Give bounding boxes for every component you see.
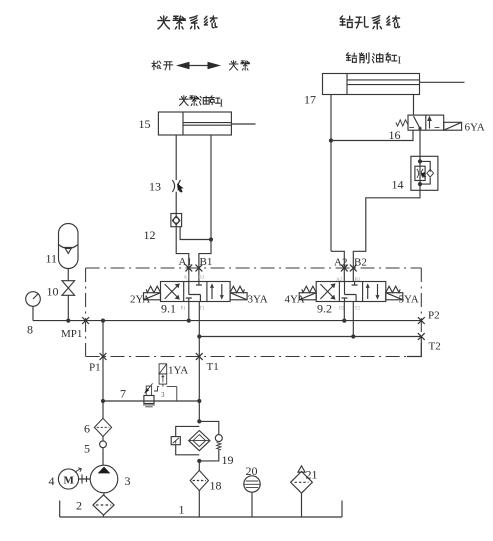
label: clamping cylinder I <box>179 96 220 106</box>
valve 9.1 port labels (small) <box>181 276 206 312</box>
svg-text:15: 15 <box>139 117 151 131</box>
svg-text:18: 18 <box>210 479 222 493</box>
wire: check 12 down, jog right to A1 <box>176 227 189 282</box>
svg-text:B2: B2 <box>355 278 361 283</box>
suction filter 2 <box>93 495 114 515</box>
svg-text:3YA: 3YA <box>248 294 268 306</box>
one-way flow control valve 14 <box>411 156 438 190</box>
electromagnetic relief valve 7 <box>143 364 177 407</box>
svg-text:2YA: 2YA <box>130 294 150 306</box>
wire: T1 column down from valve <box>198 302 200 422</box>
junction: 14 bottom <box>418 182 422 186</box>
node T2 <box>418 333 425 340</box>
svg-text:MP1: MP1 <box>61 328 82 340</box>
pressure gauge 8 <box>26 292 41 321</box>
svg-text:I: I <box>398 55 402 67</box>
junction: bypass connection <box>329 138 333 142</box>
svg-text:B1: B1 <box>200 256 213 268</box>
junction: 14 top <box>418 159 422 163</box>
directional valve 9.1 <box>144 282 248 302</box>
title: clamping system (Chinese) <box>158 16 217 29</box>
level gauge 20 <box>244 476 260 517</box>
node B1 <box>196 265 203 272</box>
svg-text:A1: A1 <box>184 276 191 281</box>
pilot operated check valve 12 <box>171 214 182 227</box>
solenoid valve 16 (2-pos) <box>396 115 462 130</box>
oil tank 1 <box>60 501 342 518</box>
wire: valve 9.2 T2 port drop <box>352 302 354 337</box>
svg-text:9.1: 9.1 <box>161 302 176 316</box>
svg-text:5YA: 5YA <box>399 294 419 306</box>
return filter 18 <box>190 470 208 490</box>
hydraulic pump 3 <box>90 465 118 493</box>
svg-text:13: 13 <box>149 180 161 194</box>
svg-text:4: 4 <box>49 474 55 488</box>
svg-text:I: I <box>220 98 224 110</box>
svg-text:T1: T1 <box>207 361 219 373</box>
svg-text:T2: T2 <box>429 341 441 353</box>
wire: pump pressure branch down <box>102 321 104 419</box>
svg-text:6YA: 6YA <box>465 122 485 134</box>
node P2 <box>418 317 425 324</box>
wire: valve 9.2 P2 port drop <box>343 302 345 321</box>
svg-text:10: 10 <box>47 285 59 299</box>
svg-text:16: 16 <box>389 128 401 142</box>
svg-text:11: 11 <box>46 252 58 266</box>
svg-text:A2: A2 <box>334 257 347 269</box>
wire: piston line jog to A2 <box>331 251 344 281</box>
svg-text:A1: A1 <box>179 256 192 268</box>
junction: pump branch <box>101 319 105 323</box>
shut-off valve 10 <box>62 281 75 296</box>
label: clamp (jia jin) <box>229 61 249 70</box>
junction: T1 column on T line <box>197 334 201 338</box>
throttle valve 13 <box>172 180 183 193</box>
directional valve 9.2 <box>299 282 403 302</box>
wire: 14 down and across to B2 <box>353 190 420 281</box>
cylinder 17 body <box>323 74 465 95</box>
wire: cyl15 rod port down, jog left to B1 <box>199 135 211 282</box>
svg-text:9.2: 9.2 <box>317 302 332 316</box>
node T1 <box>196 353 203 360</box>
junction: accumulator branch <box>66 319 70 323</box>
check valve 5 <box>100 437 107 466</box>
svg-text:8: 8 <box>27 323 33 337</box>
junction: valve 9.1 P1 port <box>187 319 191 323</box>
wire: cyl17 piston port down <box>330 95 332 252</box>
label: drilling cylinder I <box>346 53 397 63</box>
svg-text:B1: B1 <box>199 276 205 281</box>
svg-text:12: 12 <box>144 228 156 242</box>
node A1 <box>185 265 192 272</box>
wire: cyl17 rod port to valve 16 <box>413 95 415 116</box>
wire: bypass line to valve 16 <box>331 130 413 140</box>
svg-text:A2: A2 <box>336 278 343 283</box>
node MP1 <box>82 317 89 324</box>
svg-text:B2: B2 <box>354 257 367 269</box>
junction: filter assembly bottom <box>197 459 201 463</box>
manifold boundary (dash-dot box) <box>86 268 422 357</box>
accumulator 11 <box>59 224 79 269</box>
svg-text:P1: P1 <box>181 307 187 312</box>
wire: P1 port drop <box>188 302 190 321</box>
svg-text:3: 3 <box>161 391 165 399</box>
junction: drain joins T column <box>197 399 201 403</box>
wire: valve 10 down to pressure line <box>67 295 69 320</box>
pilot line from 12 to rod-side line <box>180 227 211 240</box>
svg-text:14: 14 <box>392 178 404 192</box>
wire: valve 16 down to flow valve 14 <box>419 130 421 161</box>
node P1 <box>100 353 107 360</box>
air breather 21 <box>291 466 313 517</box>
title: drilling system (Chinese) <box>340 16 400 29</box>
svg-text:5: 5 <box>84 442 90 456</box>
boundary corner at T2 <box>407 337 421 357</box>
junction: T2 drop on T line <box>351 334 355 338</box>
svg-text:20: 20 <box>246 464 258 478</box>
svg-text:P1: P1 <box>89 362 101 374</box>
svg-text:T2: T2 <box>355 307 361 312</box>
electric motor 4 <box>58 469 78 489</box>
svg-text:3: 3 <box>125 474 131 488</box>
return filter assembly 19 <box>171 421 222 461</box>
tank return line T <box>199 336 421 338</box>
filter 6 <box>94 418 111 436</box>
svg-text:17: 17 <box>304 93 316 107</box>
valve 9.2 port labels (small) <box>336 278 361 312</box>
svg-text:6: 6 <box>84 422 90 436</box>
drive shaft with coupling <box>75 468 90 484</box>
wire: to return filter 18 <box>198 461 200 470</box>
svg-text:P2: P2 <box>428 310 440 322</box>
label: release (song kai) <box>152 61 173 70</box>
svg-text:2: 2 <box>76 499 82 513</box>
wire: accumulator to shutoff valve 10 <box>67 269 69 281</box>
svg-text:M: M <box>64 475 75 487</box>
node B2 <box>350 265 357 272</box>
pressure supply line MP1 <box>33 320 421 322</box>
cylinder 15 body <box>158 112 255 135</box>
wire: throttle 13 to pilot check 12 <box>175 192 177 214</box>
svg-text:7: 7 <box>120 387 126 401</box>
wire: relief drain line to T column <box>103 400 199 402</box>
svg-text:19: 19 <box>222 453 234 467</box>
junction: valve 9.2 P2 port <box>342 319 346 323</box>
svg-text:21: 21 <box>306 468 318 482</box>
node A2 <box>341 265 348 272</box>
junction on rod-side line <box>209 237 213 241</box>
junction: relief branch <box>101 399 105 403</box>
svg-text:T1: T1 <box>199 307 205 312</box>
motion double arrow <box>176 62 221 70</box>
wire: filter 18 to tank <box>198 491 200 517</box>
svg-text:1YA: 1YA <box>168 365 188 377</box>
svg-text:4YA: 4YA <box>285 294 305 306</box>
svg-text:1: 1 <box>179 503 185 517</box>
junction: filter assembly top <box>197 419 201 423</box>
wire: cyl15 piston port down to throttle 13 <box>175 135 177 180</box>
